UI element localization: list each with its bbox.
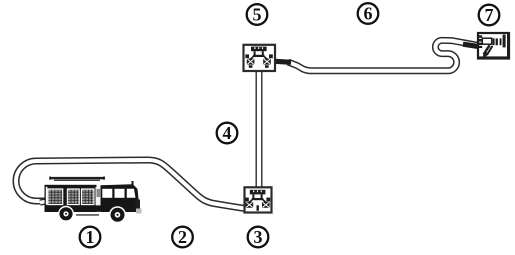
center stem — [257, 205, 259, 211]
posts — [252, 194, 254, 198]
outlet feet — [249, 65, 253, 68]
bridge bar — [252, 198, 263, 200]
front wheel — [109, 206, 126, 223]
right valve cluster — [263, 59, 271, 65]
pump panel gap — [96, 187, 102, 206]
wire: vertical hose between wyes (item 4) — [256, 71, 263, 189]
node label 5 — [247, 4, 268, 25]
left valve cluster — [247, 59, 255, 65]
under-truck line — [76, 214, 99, 215]
svg-text:6: 6 — [364, 4, 373, 24]
bridge bar — [253, 55, 265, 57]
body module — [45, 185, 97, 212]
posts — [254, 51, 256, 55]
nozzle grip diagonal — [484, 45, 490, 54]
front bumper — [136, 200, 141, 210]
compartment door frames — [47, 188, 94, 205]
cab — [101, 184, 139, 212]
node label 4 — [217, 123, 238, 144]
node label 2 — [172, 227, 193, 248]
arms — [249, 199, 267, 202]
node label 7 — [479, 5, 500, 26]
mirror post — [132, 181, 134, 185]
tip bar — [503, 35, 506, 48]
ladder — [51, 177, 105, 179]
wire: attack hose from upper wye to nozzle (item 6) — [275, 40, 478, 70]
side ticks — [245, 198, 249, 202]
svg-text:7: 7 — [485, 5, 494, 25]
node label 1 — [80, 227, 101, 248]
shutoff body frame — [482, 38, 491, 44]
cab windows — [102, 189, 112, 198]
svg-text:5: 5 — [253, 5, 262, 25]
node label 6 — [358, 3, 379, 24]
wye appliance box (item 3) — [245, 187, 272, 212]
svg-text:3: 3 — [254, 227, 263, 247]
chassis skirt — [45, 205, 138, 211]
svg-text:1: 1 — [86, 227, 95, 247]
left valve cluster — [246, 202, 254, 208]
wire: supply hose from engine, loop over truck to wye (item 2) — [16, 160, 245, 209]
wye appliance box (item 5) — [244, 45, 276, 71]
node label 3 — [248, 227, 269, 248]
svg-text:2: 2 — [178, 227, 187, 247]
coupling ribs left — [479, 35, 483, 38]
wire: solid coupling stub at nozzle inlet — [463, 44, 478, 46]
inlet coupling bar — [250, 190, 266, 195]
side ticks — [245, 54, 249, 58]
wire: solid coupling stub at wye outlet — [275, 61, 291, 62]
fire engine (item 1) — [40, 177, 142, 224]
rear wheel — [58, 206, 74, 222]
arms — [250, 56, 268, 59]
svg-text:4: 4 — [223, 123, 232, 143]
hose stub into truck rear — [40, 201, 52, 203]
barrel ribs — [493, 38, 495, 45]
nozzle box (item 7) — [478, 33, 510, 59]
right valve cluster — [262, 202, 270, 208]
inlet coupling bar — [251, 47, 267, 52]
compartment doors with hatch — [48, 190, 93, 204]
